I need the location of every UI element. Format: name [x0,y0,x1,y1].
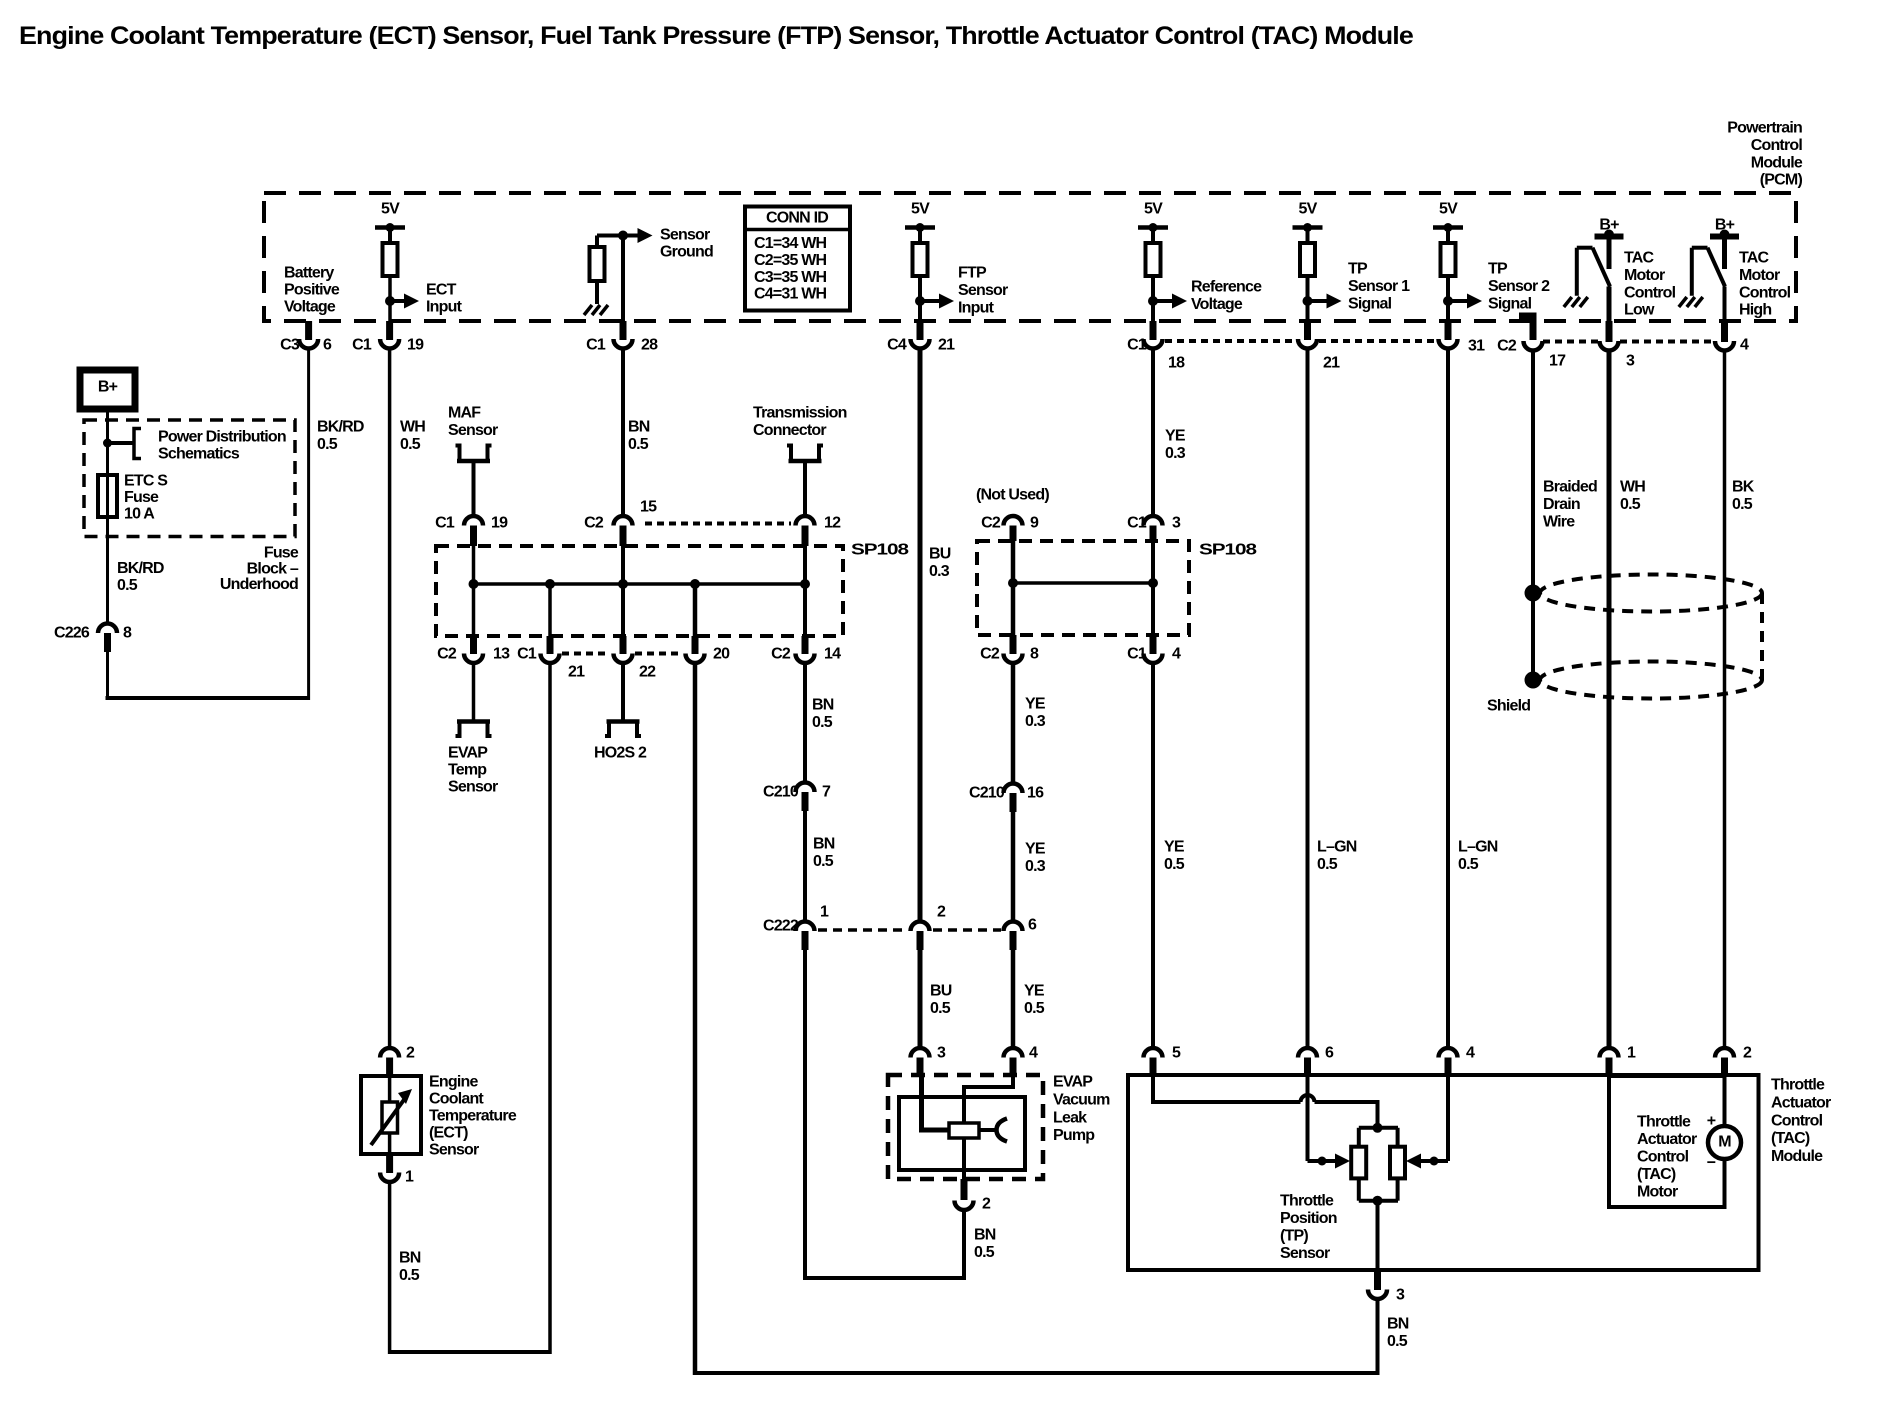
PCM dashed box [264,193,1796,321]
svg-text:0.5: 0.5 [399,1267,420,1284]
splice SP108 box 2 [977,541,1189,635]
svg-text:8: 8 [123,625,132,642]
svg-text:HO2S 2: HO2S 2 [594,745,647,762]
svg-text:0.5: 0.5 [628,436,649,453]
svg-text:C1: C1 [435,515,455,532]
EVAP pump dashed box [888,1075,1043,1179]
wire TP to pin 3 [1376,1201,1380,1270]
svg-text:BN: BN [812,697,834,714]
svg-text:7: 7 [822,784,831,801]
wire B+ to fuse [106,409,109,624]
wire MAF to splice [472,546,476,636]
svg-text:28: 28 [641,337,658,354]
wire to C222-1 [803,811,807,920]
connector C1 pin 3 [1144,516,1163,526]
wire sensor ground arrow [597,234,623,238]
svg-text:C1: C1 [586,337,606,354]
svg-text:1: 1 [820,904,829,921]
node shield upper [1525,585,1542,602]
svg-text:10 A: 10 A [124,505,155,522]
EVAP pump inner box [899,1097,1025,1170]
svg-text:0.5: 0.5 [812,714,833,731]
dotted connector line C1 [1165,339,1296,343]
wire C226 to bottom [106,652,109,700]
svg-text:Input: Input [958,300,995,317]
svg-text:C1=34 WH: C1=34 WH [754,235,827,252]
switch TAC Motor Control High [1692,246,1708,250]
connector TAC pin 2 [1715,1048,1734,1058]
svg-text:C2: C2 [584,515,604,532]
wire HO2S2 [621,664,625,720]
svg-text:Throttle: Throttle [1280,1193,1334,1210]
svg-text:C222: C222 [763,918,799,935]
svg-text:Sensor: Sensor [660,227,710,244]
wire 21 stub [548,584,552,636]
connector C2 pin 3 [1600,341,1619,351]
svg-text:3: 3 [937,1045,946,1062]
wire 20 bottom horizontal [695,1371,1378,1375]
svg-text:Engine Coolant Temperature (EC: Engine Coolant Temperature (ECT) Sensor,… [19,22,1414,50]
svg-text:19: 19 [491,515,508,532]
svg-text:4: 4 [1466,1045,1475,1062]
svg-text:Reference: Reference [1191,279,1262,296]
connector C2 pin 14 [796,654,815,664]
svg-text:0.5: 0.5 [1387,1333,1408,1350]
wire stub C2-14 [802,636,809,654]
svg-text:0.3: 0.3 [1025,858,1046,875]
svg-text:YE: YE [1025,696,1046,713]
svg-text:5V: 5V [1299,201,1318,218]
svg-text:EVAP: EVAP [1053,1074,1093,1091]
svg-text:2: 2 [937,904,946,921]
svg-text:BK/RD: BK/RD [117,560,164,577]
wire 12 to bus [803,546,807,636]
svg-text:(Not Used): (Not Used) [976,487,1049,504]
svg-text:Positive: Positive [284,282,340,299]
svg-text:YE: YE [1024,983,1045,1000]
TAC motor box [1609,1076,1725,1207]
TAC module box [1128,1075,1759,1270]
connector C4 pin 21 [911,339,930,349]
svg-text:2: 2 [1743,1045,1752,1062]
wire to EVAP temp sensor [472,664,476,720]
transmission bracket [789,459,822,464]
svg-text:C226: C226 [54,625,90,642]
svg-text:Power Distribution: Power Distribution [158,429,286,446]
CONN ID table [745,207,850,311]
arrow TP Sensor 2 Signal [1448,299,1470,303]
svg-text:B+: B+ [98,379,118,396]
wire BN to pump [803,950,807,1280]
wire BU vertical [918,349,923,920]
svg-text:C1: C1 [517,646,537,663]
svg-text:Fuse: Fuse [264,545,299,562]
wire C1-19 stub [386,321,393,340]
EVAP temp sensor bracket [457,719,490,724]
svg-text:YE: YE [1165,428,1186,445]
connector pin 20 [686,654,705,664]
connector C2 pin 17 [1524,341,1543,351]
resistor sensor ground [595,236,599,248]
svg-text:C1: C1 [1127,646,1147,663]
connector C2 pin 4 [1715,341,1734,351]
svg-text:Braided: Braided [1543,479,1597,496]
svg-text:Actuator: Actuator [1637,1131,1697,1148]
svg-text:(TAC): (TAC) [1771,1130,1810,1147]
wire to C210-16 [1011,664,1016,782]
svg-text:12: 12 [824,515,841,532]
svg-text:4: 4 [1172,646,1181,663]
svg-text:14: 14 [824,646,841,663]
svg-text:C2: C2 [1497,338,1517,355]
svg-text:21: 21 [938,337,955,354]
connector C2 pin 15 [614,516,633,526]
connector pump pin 4 [1004,1048,1023,1058]
wire L-GN 2 [1446,349,1450,1046]
svg-text:Underhood: Underhood [220,576,298,593]
svg-text:BU: BU [929,546,951,563]
connector C1 pin 4 [1144,654,1163,664]
svg-text:4: 4 [1029,1045,1038,1062]
svg-text:BN: BN [628,419,650,436]
svg-text:Schematics: Schematics [158,446,240,463]
svg-text:C4=31 WH: C4=31 WH [754,286,827,303]
svg-text:C2: C2 [981,515,1001,532]
shield side line [1760,593,1764,680]
svg-text:0.5: 0.5 [930,1000,951,1017]
svg-text:3: 3 [1626,353,1635,370]
svg-text:2: 2 [982,1196,991,1213]
svg-text:Fuse: Fuse [124,489,159,506]
svg-text:Module: Module [1771,1148,1823,1165]
svg-text:Throttle: Throttle [1771,1077,1825,1094]
svg-text:EVAP: EVAP [448,745,488,762]
connector pump pin 2 [961,1179,968,1200]
connector C1 pin 19 MAF [464,516,483,526]
ground sensor ground [584,305,592,315]
wire YE to TAC 5 [1151,664,1155,1046]
svg-text:Input: Input [426,299,463,316]
pump solenoid [949,1123,979,1138]
svg-text:(TP): (TP) [1280,1228,1308,1245]
svg-text:BN: BN [813,836,835,853]
wire C4-21 stub [917,321,924,340]
svg-text:C2: C2 [980,646,1000,663]
wire C3-6 stub [305,321,312,340]
svg-text:C210: C210 [969,785,1005,802]
connector TP pin 3 [1374,1270,1381,1290]
pump motor crescent [979,1128,997,1132]
wire ECT bottom horizontal [390,1350,550,1354]
wire pump 3 internal [922,1076,950,1130]
dashed links C222 [818,928,908,932]
wire 20 path [693,584,698,636]
svg-text:16: 16 [1027,785,1044,802]
svg-text:C2=35 WH: C2=35 WH [754,252,827,269]
svg-text:0.5: 0.5 [1732,496,1753,513]
svg-text:20: 20 [713,646,730,663]
svg-text:6: 6 [1325,1045,1334,1062]
svg-text:5V: 5V [911,201,930,218]
svg-text:15: 15 [640,499,657,516]
svg-text:YE: YE [1025,841,1046,858]
wire pin3 stub [1606,321,1613,342]
svg-text:Position: Position [1280,1210,1337,1227]
connector C210 pin 16 [1004,784,1023,794]
svg-text:C2: C2 [437,646,457,663]
HO2S2 bracket [607,719,640,724]
svg-text:WH: WH [1620,479,1645,496]
svg-text:1: 1 [405,1169,414,1186]
switch TAC Motor Control Low [1577,246,1593,250]
svg-text:C2: C2 [771,646,791,663]
connector C1 pin 31 [1439,339,1458,349]
splice bus SP108-2 [1013,581,1153,585]
connector C1 pin 21 [1298,339,1317,349]
connector C222 pin 2 [911,922,930,932]
svg-text:MAF: MAF [448,405,481,422]
svg-text:BU: BU [930,983,952,1000]
svg-text:0.5: 0.5 [1458,856,1479,873]
svg-text:Control: Control [1771,1112,1823,1129]
svg-text:Block –: Block – [247,560,299,577]
connector C222 pin 1 [796,922,815,932]
svg-text:(TAC): (TAC) [1637,1166,1676,1183]
connector C1 pin 18 [1144,339,1163,349]
connector TAC pin 6 [1298,1048,1317,1058]
svg-text:Temperature: Temperature [429,1108,517,1125]
svg-text:0.5: 0.5 [1164,856,1185,873]
wire to C210-7 [803,664,807,781]
svg-text:SP108: SP108 [1199,542,1257,559]
svg-text:3: 3 [1172,515,1181,532]
wire pin31 stub [1445,321,1452,340]
svg-text:31: 31 [1468,338,1485,355]
svg-text:L–GN: L–GN [1458,839,1498,856]
wire to C222-6 [1011,812,1016,920]
svg-text:22: 22 [639,664,656,681]
svg-text:TP: TP [1488,261,1508,278]
connector C2 pin 9 [1004,516,1023,526]
wire WH vertical [388,349,392,1047]
connector C2 pin 13 [464,654,483,664]
fuse ETC S 10A [98,475,117,517]
svg-text:0.5: 0.5 [117,577,138,594]
wire BN vertical [621,349,625,514]
dotted line C2-15 to 12 [645,522,791,526]
wire 4 internal [1446,1076,1450,1161]
svg-text:0.3: 0.3 [1165,445,1186,462]
splice bus SP108 [474,582,806,586]
connector pin 12 [796,516,815,526]
svg-text:Signal: Signal [1488,296,1532,313]
connector C226 pin 8 [98,624,117,634]
svg-text:5V: 5V [1439,201,1458,218]
svg-text:Motor: Motor [1637,1184,1678,1201]
svg-text:13: 13 [493,646,510,663]
wire transmission down [803,461,807,514]
svg-text:Ground: Ground [660,244,713,261]
svg-text:C3=35 WH: C3=35 WH [754,269,827,286]
svg-text:(PCM): (PCM) [1760,172,1803,189]
svg-text:6: 6 [1028,917,1037,934]
svg-text:High: High [1739,302,1771,319]
svg-text:Temp: Temp [448,762,487,779]
svg-text:21: 21 [568,664,585,681]
svg-text:YE: YE [1164,839,1185,856]
svg-text:C1: C1 [1127,337,1147,354]
svg-text:Vacuum: Vacuum [1053,1092,1110,1109]
wire 5 internal [1153,1076,1301,1102]
connector TAC pin 1 [1600,1048,1619,1058]
svg-text:21: 21 [1323,355,1340,372]
svg-text:L–GN: L–GN [1317,839,1357,856]
svg-text:Module: Module [1751,154,1803,171]
TP sensor potentiometer [1359,1126,1398,1130]
svg-text:Throttle: Throttle [1637,1114,1691,1131]
svg-text:2: 2 [406,1045,415,1062]
svg-text:Low: Low [1624,302,1655,319]
connector C1 pin 21 row3 [541,654,560,664]
wire YE ref voltage [1151,349,1155,514]
svg-text:−: − [1707,1155,1716,1172]
svg-text:BK: BK [1732,479,1755,496]
svg-text:CONN ID: CONN ID [766,210,828,227]
svg-text:Drain: Drain [1543,496,1580,513]
arrow ECT Input [390,299,404,303]
svg-text:0.5: 0.5 [974,1244,995,1261]
svg-text:C1: C1 [352,337,372,354]
svg-text:BK/RD: BK/RD [317,419,364,436]
connector pump pin 3 [911,1048,930,1058]
wire 6 internal [1306,1076,1310,1161]
wire stub C2-8 [1010,635,1017,654]
wire C1-18 stub [1150,321,1157,340]
wire 20 long vertical [693,664,698,1375]
svg-text:6: 6 [323,337,332,354]
svg-text:Leak: Leak [1053,1109,1087,1126]
svg-text:Wire: Wire [1543,513,1575,530]
svg-text:8: 8 [1030,646,1039,663]
connector C1 pin 19 [380,339,399,349]
wire pump to pin 2 [962,1138,966,1190]
dotted row3 line [562,652,610,656]
wire pump bottom horizontal [803,1276,964,1280]
svg-text:M: M [1718,1134,1731,1151]
svg-text:Coolant: Coolant [429,1091,484,1108]
connector TAC pin 4 [1439,1048,1458,1058]
svg-text:Control: Control [1751,137,1803,154]
wire MAF down [472,461,476,514]
svg-text:Transmission: Transmission [753,405,847,422]
wire WH tac [1607,351,1612,1046]
svg-text:Sensor 2: Sensor 2 [1488,278,1550,295]
svg-text:Voltage: Voltage [284,299,336,316]
MAF connector bracket [457,459,490,464]
svg-text:Sensor: Sensor [429,1142,479,1159]
svg-text:+: + [1707,1113,1716,1130]
svg-text:ECT: ECT [426,282,457,299]
splice SP108 box [436,546,843,636]
svg-text:SP108: SP108 [851,542,909,559]
wire stub C1-4 [1150,635,1157,654]
svg-text:TP: TP [1348,261,1368,278]
svg-text:C1: C1 [1127,515,1147,532]
wire pump 4 internal [964,1076,1013,1123]
svg-text:19: 19 [407,337,424,354]
connector C1 pin 28 [614,339,633,349]
node power distribution tap [103,439,112,448]
dotted connector line C2 [1543,340,1598,344]
svg-text:Signal: Signal [1348,296,1392,313]
svg-text:Sensor: Sensor [448,422,498,439]
svg-text:Sensor 1: Sensor 1 [1348,278,1410,295]
svg-text:Powertrain: Powertrain [1727,120,1802,137]
wire YE through SP108-2 [1011,541,1016,635]
shield upper ellipse [1540,575,1762,612]
svg-text:0.5: 0.5 [317,436,338,453]
svg-text:ETC S: ETC S [124,473,168,490]
svg-text:0.5: 0.5 [1024,1000,1045,1017]
svg-text:Voltage: Voltage [1191,296,1243,313]
wire BN from TP3 [1376,1300,1380,1375]
svg-text:C210: C210 [763,784,799,801]
wire pin21 stub [1304,321,1311,340]
svg-text:BN: BN [1387,1316,1409,1333]
wire YE to pump [1011,950,1016,1046]
svg-text:1: 1 [1627,1045,1636,1062]
ground TAC high switch [1679,297,1687,307]
wire L-GN 1 [1306,349,1310,1046]
svg-text:5V: 5V [1144,201,1163,218]
svg-text:Sensor: Sensor [1280,1245,1330,1262]
svg-text:Motor: Motor [1739,267,1780,284]
wire BN up to C1-21 [548,664,552,1354]
svg-text:Control: Control [1637,1149,1689,1166]
svg-text:FTP: FTP [958,265,987,282]
arrow FTP Sensor Input [920,299,942,303]
connector C210 pin 7 [796,783,815,793]
shield lower ellipse [1540,662,1762,699]
wire pin4 stub [1721,321,1728,342]
svg-text:Battery: Battery [284,265,334,282]
svg-text:WH: WH [400,419,425,436]
wire BK/RD vertical [307,349,310,700]
junction dots SP108 [469,579,479,589]
wire C1-28 vertical [621,236,625,322]
svg-text:5V: 5V [381,201,400,218]
connector pin 22 [614,654,633,664]
wire C2-17 bend [1519,316,1533,340]
svg-text:C4: C4 [887,337,907,354]
ground TAC low switch [1564,297,1572,307]
wire BK tac [1723,351,1727,1046]
connector C3 pin 6 [299,339,318,349]
wire ECT input vertical [388,276,392,321]
wire braided drain [1531,351,1535,680]
svg-text:17: 17 [1549,353,1566,370]
svg-text:TAC: TAC [1624,250,1655,267]
svg-text:5: 5 [1172,1045,1181,1062]
svg-text:Control: Control [1739,284,1791,301]
wire through SP108-2 right [1151,541,1155,635]
connector ECT pin 1 [386,1154,393,1173]
arrow TP Sensor 1 Signal [1308,299,1330,303]
svg-text:0.3: 0.3 [929,563,950,580]
arrow Reference Voltage [1153,299,1175,303]
svg-text:18: 18 [1168,355,1185,372]
svg-text:0.3: 0.3 [1025,713,1046,730]
